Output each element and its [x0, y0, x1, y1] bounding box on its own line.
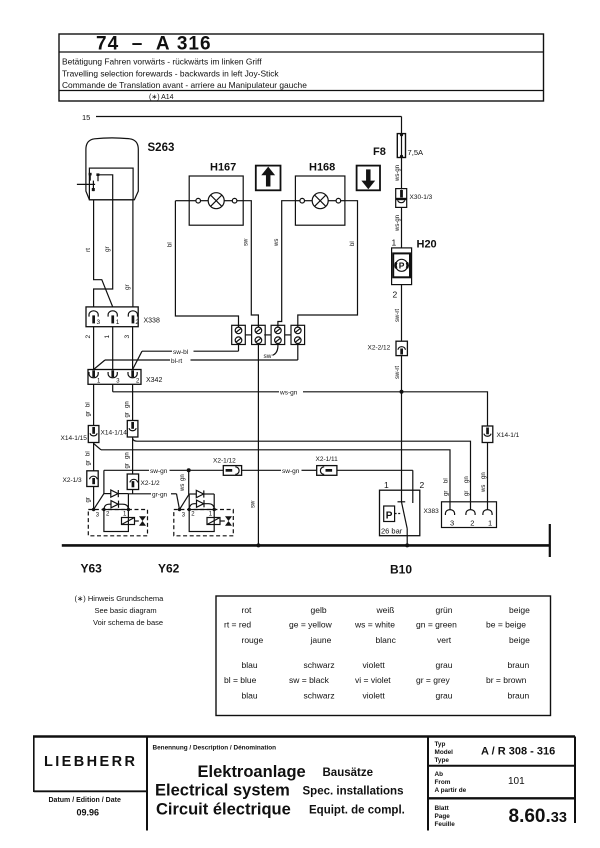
- junction sw-rt ws-gn: [400, 390, 404, 394]
- svg-text:Elektroanlage: Elektroanlage: [198, 763, 306, 781]
- svg-text:101: 101: [508, 776, 525, 787]
- wire gr from S263 middle: [94, 200, 113, 307]
- wire sw-bl X342 socket2 to terminal 1: [133, 345, 239, 370]
- svg-text:P: P: [386, 510, 393, 521]
- svg-text:X14-1/1: X14-1/1: [497, 432, 520, 439]
- Y63 diode lower: [104, 501, 128, 510]
- svg-text:gr: gr: [124, 412, 130, 417]
- svg-text:3: 3: [450, 519, 454, 528]
- svg-text:grau: grau: [436, 691, 453, 701]
- svg-text:X338: X338: [144, 318, 160, 325]
- svg-text:rouge: rouge: [242, 635, 264, 645]
- svg-text:A partir de: A partir de: [435, 787, 467, 794]
- ground bus end bar: [549, 524, 551, 557]
- wire gr-bl X342 socket1 down: [93, 384, 95, 425]
- X338 socket pin 2: [128, 311, 137, 324]
- svg-text:blau: blau: [242, 660, 258, 670]
- svg-text:2: 2: [393, 290, 398, 300]
- svg-text:LIEBHERR: LIEBHERR: [44, 754, 137, 770]
- svg-text:ws-gn: ws-gn: [279, 390, 298, 397]
- svg-text:3: 3: [96, 513, 100, 519]
- svg-text:Feuille: Feuille: [435, 821, 456, 828]
- legend column gelb: [289, 605, 335, 701]
- junction sw at ground bus: [256, 543, 260, 547]
- svg-text:ws: ws: [274, 239, 280, 247]
- wire gr-bl long line to X383 pin3: [101, 450, 450, 510]
- wire X14-1/15 to X2-1/3: [93, 443, 95, 471]
- svg-text:1: 1: [104, 335, 111, 339]
- svg-text:1: 1: [116, 319, 120, 326]
- H168 terminal right: [336, 198, 341, 203]
- Y63 valve symbol: [139, 516, 146, 526]
- wire sw H167 right to terminal 2: [243, 201, 258, 328]
- X342 socket 3: [108, 370, 117, 377]
- svg-text:gr: gr: [85, 497, 91, 502]
- svg-text:gn: gn: [464, 476, 470, 483]
- svg-text:gr: gr: [124, 283, 131, 290]
- Y62 diode lower: [189, 500, 214, 509]
- svg-text:gr: gr: [444, 491, 450, 496]
- svg-text:vert: vert: [437, 635, 452, 645]
- svg-text:gn: gn: [124, 452, 130, 459]
- H167 terminal right: [232, 198, 237, 203]
- terminal block cell 1: [232, 325, 246, 344]
- wire ws H168 left to terminal 3: [278, 201, 296, 328]
- legend colour table box: [216, 596, 551, 716]
- svg-text:ws: ws: [180, 484, 186, 492]
- svg-text:1: 1: [123, 512, 127, 518]
- svg-text:Type: Type: [435, 757, 450, 764]
- svg-text:7,5A: 7,5A: [408, 148, 425, 157]
- svg-text:1: 1: [488, 519, 492, 528]
- wire drop to Y62 pin3: [180, 470, 189, 509]
- svg-text:2: 2: [470, 519, 474, 528]
- wire sw-gn to B10 pin2: [412, 470, 414, 490]
- Y62 coil: [207, 518, 225, 525]
- wire bl-rt X342 socket1 to terminal 4: [94, 345, 298, 370]
- svg-text:braun: braun: [508, 691, 530, 701]
- connector X2-1/3: [87, 471, 98, 487]
- indicator lamp H167 box: [189, 176, 243, 225]
- svg-text:ws = white: ws = white: [354, 620, 395, 630]
- svg-text:sw: sw: [264, 353, 272, 360]
- Y63 coil: [122, 518, 139, 525]
- terminal block cell 2: [252, 325, 266, 344]
- svg-text:Travelling selection forewards: Travelling selection forewards - backwar…: [62, 69, 279, 79]
- svg-text:H167: H167: [210, 162, 236, 174]
- svg-text:gr: gr: [104, 245, 111, 252]
- wire bl H167 left to terminal 1: [175, 201, 238, 328]
- wire X30-1/3 to H20: [401, 207, 403, 248]
- svg-text:Benennung / Description / Déno: Benennung / Description / Dénomination: [153, 745, 277, 752]
- svg-text:Betätigung Fahren vorwärts - r: Betätigung Fahren vorwärts - rückwärts i…: [62, 57, 262, 67]
- svg-text:F8: F8: [373, 146, 386, 158]
- connector X14-1/1: [482, 426, 493, 443]
- legend column beige: [486, 605, 530, 701]
- wire sw-rt into B10: [401, 392, 403, 502]
- wire 15 supply line: [96, 116, 402, 118]
- connector X2-1/2: [127, 474, 138, 490]
- Y62 inner box: [189, 510, 214, 532]
- wire 1 below X338: [112, 327, 114, 370]
- H168 lamp symbol: [312, 193, 328, 209]
- svg-text:ws-gn: ws-gn: [395, 215, 401, 232]
- svg-text:1: 1: [97, 379, 101, 385]
- svg-text:gr: gr: [85, 460, 91, 465]
- svg-text:1: 1: [209, 512, 213, 518]
- svg-text:ws-gn: ws-gn: [395, 165, 401, 182]
- svg-text:bl = blue: bl = blue: [224, 675, 257, 685]
- Y63 pin 2: [102, 508, 105, 511]
- svg-text:sw: sw: [244, 238, 250, 246]
- svg-text:sw-gn: sw-gn: [150, 468, 168, 475]
- svg-text:blanc: blanc: [376, 635, 397, 645]
- ab from labels: [435, 771, 467, 794]
- svg-text:gr: gr: [85, 411, 91, 416]
- svg-text:2: 2: [191, 512, 195, 518]
- svg-text:2: 2: [135, 319, 139, 326]
- connector X383: [442, 502, 497, 528]
- svg-text:2: 2: [106, 512, 110, 518]
- svg-text:Equipt. de compl.: Equipt. de compl.: [309, 805, 405, 817]
- connector X2-1/12: [223, 466, 241, 476]
- svg-text:Y63: Y63: [81, 562, 103, 576]
- S263 inner frame: [89, 168, 133, 200]
- svg-text:sw-gn: sw-gn: [282, 468, 300, 475]
- S263 internal wire to middle output: [98, 175, 113, 200]
- svg-text:gr = grey: gr = grey: [416, 675, 451, 685]
- svg-text:gr-gn: gr-gn: [152, 492, 168, 499]
- wire gr from S263 right: [132, 200, 134, 307]
- svg-text:bl: bl: [85, 402, 91, 407]
- wire fuse to X30-1/3: [401, 158, 403, 190]
- blatt page feuille labels: [435, 805, 456, 828]
- H167 internal wires: [189, 200, 243, 202]
- wire 2 below X338: [93, 327, 95, 370]
- X383 socket 1: [483, 510, 492, 515]
- X383 socket 2: [466, 510, 475, 515]
- svg-text:gn: gn: [124, 401, 130, 408]
- svg-text:grau: grau: [436, 660, 453, 670]
- arrow icon backwards: [357, 166, 380, 191]
- svg-text:From: From: [435, 779, 451, 786]
- svg-text:sw-rt: sw-rt: [395, 366, 401, 379]
- svg-text:S263: S263: [148, 142, 175, 154]
- wire ws-gn X342 socket3 to junction: [113, 384, 402, 392]
- svg-text:schwarz: schwarz: [304, 691, 335, 701]
- svg-text:X14-1/14: X14-1/14: [101, 430, 128, 437]
- Y62 pin 1: [213, 508, 216, 511]
- Y63 pin 1: [127, 508, 130, 511]
- H167 lamp symbol: [208, 193, 224, 209]
- svg-text:grün: grün: [436, 605, 453, 615]
- svg-text:sw: sw: [251, 500, 257, 508]
- svg-text:X383: X383: [424, 508, 440, 515]
- svg-text:bl: bl: [444, 478, 450, 483]
- title block frame: [33, 737, 575, 831]
- svg-text:X2-1/11: X2-1/11: [316, 456, 339, 463]
- legend column weiss: [354, 605, 397, 701]
- svg-text:Voir schema de base: Voir schema de base: [93, 618, 163, 627]
- wire gr-gn X342 socket2 down: [132, 384, 134, 420]
- svg-text:H168: H168: [309, 162, 335, 174]
- Y62 valve symbol: [225, 516, 232, 526]
- svg-text:X30-1/3: X30-1/3: [410, 194, 433, 201]
- svg-text:rt: rt: [85, 248, 92, 252]
- svg-text:Ab: Ab: [435, 771, 444, 778]
- warning lamp H20: [392, 248, 412, 285]
- connector X14-1/15: [88, 426, 99, 443]
- wire sw terminal 2 to ground bus: [257, 345, 259, 546]
- note hinweis grundschema: [75, 594, 165, 627]
- B10 switch contact: [398, 502, 408, 529]
- wire gr-gn long line to X383 pin2: [137, 441, 471, 510]
- typ model type labels: [435, 741, 454, 764]
- pressure switch B10 box: [380, 490, 420, 536]
- svg-text:(∗) A14: (∗) A14: [149, 94, 174, 101]
- svg-text:Bausätze: Bausätze: [323, 767, 374, 779]
- svg-text:See basic diagram: See basic diagram: [95, 606, 157, 615]
- connector X2-2/12: [396, 341, 407, 355]
- X342 socket 1: [89, 370, 98, 378]
- svg-text:Electrical system: Electrical system: [155, 782, 290, 800]
- svg-text:X2-2/12: X2-2/12: [368, 345, 391, 352]
- svg-text:gn: gn: [481, 472, 487, 479]
- solenoid valve Y63 dashed box: [88, 510, 147, 536]
- svg-text:2: 2: [85, 335, 92, 339]
- svg-text:X2-1/3: X2-1/3: [63, 477, 83, 484]
- svg-text:A / R 308 - 316: A / R 308 - 316: [481, 746, 555, 758]
- svg-text:X342: X342: [146, 377, 162, 384]
- arrow icon forwards: [256, 166, 281, 191]
- connector X14-1/14: [127, 421, 138, 438]
- svg-text:2: 2: [136, 379, 140, 385]
- svg-text:br = brown: br = brown: [486, 675, 527, 685]
- svg-text:Y62: Y62: [158, 562, 180, 576]
- svg-text:vi = violet: vi = violet: [355, 675, 391, 685]
- svg-text:jaune: jaune: [310, 635, 332, 645]
- solenoid valve Y62 dashed box: [174, 510, 234, 536]
- wire B10 to ground bus: [406, 529, 408, 546]
- svg-text:blau: blau: [242, 691, 258, 701]
- connector X30-1/3: [396, 189, 407, 208]
- svg-text:braun: braun: [508, 660, 530, 670]
- svg-text:3: 3: [116, 379, 120, 385]
- B10 dashed link: [395, 513, 401, 515]
- indicator lamp H168 box: [295, 176, 345, 225]
- wire branch to X14-1/1: [402, 392, 488, 426]
- svg-text:ws: ws: [481, 485, 487, 493]
- svg-text:3: 3: [124, 335, 131, 339]
- svg-text:(∗) Hinweis Grundschema: (∗) Hinweis Grundschema: [75, 594, 165, 603]
- H168 internal wires: [295, 200, 345, 202]
- svg-text:sw-rt: sw-rt: [395, 309, 401, 322]
- svg-text:bl: bl: [168, 242, 174, 247]
- svg-text:26 bar: 26 bar: [381, 526, 403, 535]
- svg-text:violett: violett: [363, 691, 386, 701]
- svg-text:gelb: gelb: [311, 605, 327, 615]
- svg-text:Circuit électrique: Circuit électrique: [156, 801, 291, 819]
- H167 terminal left: [196, 198, 201, 203]
- svg-text:bl-rt: bl-rt: [171, 358, 182, 365]
- wire rt from S263: [94, 200, 113, 307]
- svg-text:3: 3: [182, 513, 186, 519]
- svg-text:Spec. installations: Spec. installations: [303, 786, 404, 798]
- fuse F8: [397, 133, 405, 158]
- terminal block cell 4: [291, 325, 305, 344]
- svg-text:schwarz: schwarz: [304, 660, 335, 670]
- svg-text:weiß: weiß: [376, 605, 395, 615]
- wire sw terminal 3 joining: [273, 345, 278, 356]
- Y62 pin 3: [178, 508, 181, 511]
- joystick switch S263 body: [86, 138, 138, 200]
- wire X14-1/14 to X2-1/2: [132, 437, 134, 474]
- X338 socket pin 3: [89, 311, 98, 324]
- terminal screws top row: [235, 327, 301, 334]
- X338 socket pin 1: [108, 311, 117, 324]
- svg-text:Blatt: Blatt: [435, 805, 450, 812]
- svg-text:gn = green: gn = green: [416, 620, 457, 630]
- svg-text:sw = black: sw = black: [289, 675, 330, 685]
- legend column rot: [224, 605, 264, 701]
- wire branch curve to X383 pin2 line: [133, 439, 137, 442]
- svg-text:be = beige: be = beige: [486, 620, 526, 630]
- svg-text:09.96: 09.96: [77, 808, 100, 818]
- connector X338: [86, 307, 138, 327]
- junction sw-gn drop: [187, 468, 191, 472]
- svg-text:Page: Page: [435, 813, 451, 820]
- terminal block bridges: [245, 334, 291, 336]
- wire branch diagonal to X383 pin3 line: [94, 444, 101, 450]
- svg-text:Model: Model: [435, 749, 454, 756]
- connector X2-1/11: [317, 466, 337, 476]
- S263 switch actuator 2: [96, 173, 99, 181]
- svg-text:8.60.33: 8.60.33: [509, 806, 567, 827]
- wire H20 to X2-2/12: [401, 285, 403, 342]
- terminal screws bottom row: [235, 337, 301, 344]
- Y63 inner box: [104, 510, 128, 532]
- junction B10 at ground bus: [405, 543, 409, 547]
- svg-text:rot: rot: [242, 605, 253, 615]
- svg-text:74 – A 316: 74 – A 316: [96, 34, 212, 55]
- B10 pin 2 stub: [412, 490, 414, 503]
- wire ws-gn X14-1/1 to X383 pin1: [487, 443, 489, 510]
- wire 3 below X338: [132, 327, 134, 370]
- svg-text:sw-bl: sw-bl: [173, 349, 189, 356]
- wire bl H168 right to terminal 4: [298, 201, 358, 328]
- B10 P sensor square: [384, 506, 395, 522]
- svg-text:Commande de Translation avant: Commande de Translation avant - arriere …: [62, 80, 307, 90]
- svg-text:bl: bl: [350, 241, 356, 246]
- svg-text:15: 15: [82, 113, 90, 122]
- S263 switch actuator 1: [89, 173, 92, 181]
- svg-text:rt = red: rt = red: [224, 620, 251, 630]
- connector X342: [88, 370, 141, 385]
- Y62 diode upper: [189, 490, 214, 509]
- svg-text:gr: gr: [464, 491, 470, 496]
- svg-text:gr: gr: [124, 463, 130, 468]
- Y63 pin 3: [92, 508, 95, 511]
- svg-text:2: 2: [420, 480, 425, 490]
- svg-text:ge = yellow: ge = yellow: [289, 620, 333, 630]
- header title box: [59, 34, 544, 101]
- legend column gruen: [416, 605, 457, 701]
- svg-text:gn: gn: [180, 474, 186, 481]
- wire X2-1/3 to Y63 pin3: [93, 487, 95, 510]
- svg-text:Datum / Edition / Date: Datum / Edition / Date: [49, 797, 121, 804]
- wire sw-gn line: [104, 470, 413, 493]
- svg-text:X2-1/12: X2-1/12: [213, 458, 236, 465]
- wire gr-gn to Y62 pin3: [128, 494, 179, 510]
- X342 socket 2: [128, 370, 137, 378]
- svg-text:3: 3: [97, 319, 101, 326]
- svg-text:violett: violett: [363, 660, 386, 670]
- svg-text:bl: bl: [85, 451, 91, 456]
- wire X2-1/2 to gr-gn node: [132, 490, 134, 494]
- svg-text:Typ: Typ: [435, 741, 446, 748]
- svg-text:H20: H20: [417, 239, 437, 251]
- svg-text:beige: beige: [509, 605, 530, 615]
- wire X2-2/12 to junction: [401, 356, 403, 392]
- Y63 diode upper: [94, 490, 129, 510]
- svg-text:X2-1/2: X2-1/2: [141, 480, 161, 487]
- X383 socket 3: [445, 510, 454, 515]
- svg-text:P: P: [399, 261, 405, 271]
- S263 actuator linkage: [77, 181, 95, 192]
- ground bus: [62, 544, 550, 547]
- H168 terminal left: [300, 198, 305, 203]
- svg-text:X14-1/15: X14-1/15: [61, 435, 88, 442]
- svg-text:1: 1: [392, 238, 397, 248]
- wire H167 left stub: [175, 200, 189, 202]
- wire 15 to fuse F8: [401, 117, 403, 134]
- svg-text:B10: B10: [390, 563, 412, 577]
- Y62 pin 2: [188, 508, 191, 511]
- svg-text:1: 1: [384, 480, 389, 490]
- terminal block cell 3: [271, 325, 285, 344]
- svg-text:beige: beige: [509, 635, 530, 645]
